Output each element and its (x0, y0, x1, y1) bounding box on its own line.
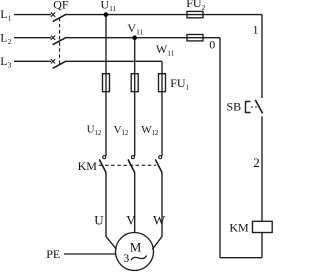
svg-text:KM: KM (229, 220, 249, 234)
svg-text:M: M (130, 240, 142, 255)
svg-text:3: 3 (123, 251, 129, 265)
svg-text:U: U (94, 212, 104, 227)
svg-text:QF: QF (53, 0, 69, 11)
svg-text:0: 0 (209, 38, 215, 52)
svg-text:1: 1 (253, 22, 259, 36)
svg-text:V: V (126, 212, 136, 227)
svg-text:W: W (153, 212, 166, 227)
svg-text:2: 2 (253, 155, 260, 170)
svg-text:KM: KM (78, 159, 98, 173)
svg-text:PE: PE (46, 247, 60, 261)
svg-text:SB: SB (227, 100, 242, 114)
